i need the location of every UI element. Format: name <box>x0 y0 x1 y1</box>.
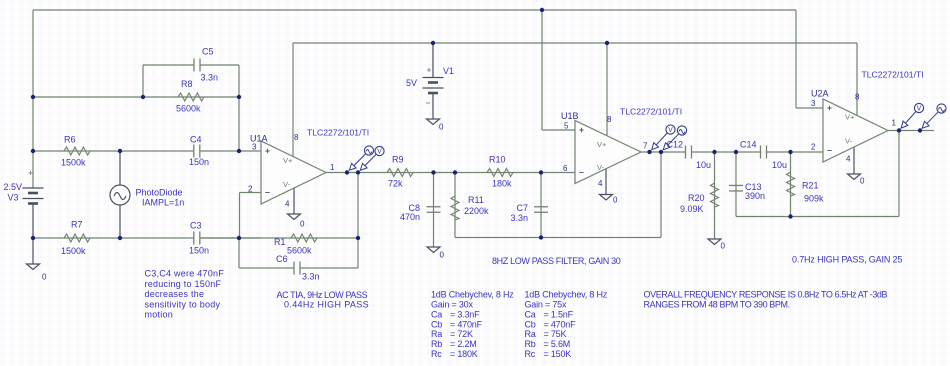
svg-text:= 5.6M: = 5.6M <box>544 339 571 349</box>
svg-text:Rc: Rc <box>525 349 536 359</box>
svg-text:3: 3 <box>811 99 816 108</box>
svg-text:Ra: Ra <box>525 329 536 339</box>
svg-text:0: 0 <box>42 273 47 282</box>
svg-text:C4: C4 <box>190 135 202 145</box>
svg-text:0: 0 <box>439 123 444 132</box>
svg-text:sensitivity to body: sensitivity to body <box>145 300 221 310</box>
svg-text:V+: V+ <box>597 140 607 149</box>
svg-text:V: V <box>668 127 673 134</box>
svg-text:= 75K: = 75K <box>544 329 567 339</box>
svg-text:3.3n: 3.3n <box>201 73 219 83</box>
svg-text:V1: V1 <box>443 66 454 76</box>
svg-text:Gain = 30x: Gain = 30x <box>431 299 473 309</box>
svg-text:9.09K: 9.09K <box>680 204 704 214</box>
svg-text:R11: R11 <box>468 195 484 205</box>
svg-text:= 470nF: = 470nF <box>450 319 483 329</box>
svg-text:C7: C7 <box>516 203 528 213</box>
svg-text:C5: C5 <box>202 47 214 57</box>
svg-text:909k: 909k <box>804 194 824 204</box>
svg-text:AC TIA, 9Hz LOW PASS: AC TIA, 9Hz LOW PASS <box>277 290 368 300</box>
svg-text:R9: R9 <box>392 155 404 165</box>
svg-text:5V: 5V <box>406 78 417 88</box>
svg-text:Ca: Ca <box>525 309 536 319</box>
svg-text:IAMPL=1n: IAMPL=1n <box>142 198 184 208</box>
svg-text:V3: V3 <box>8 193 19 203</box>
svg-text:3.3n: 3.3n <box>302 272 320 282</box>
svg-text:6: 6 <box>563 164 568 173</box>
svg-text:Gain = 75x: Gain = 75x <box>525 299 567 309</box>
svg-text:motion: motion <box>145 310 174 320</box>
svg-text:8: 8 <box>607 115 612 124</box>
svg-text:150n: 150n <box>189 157 209 167</box>
svg-text:reducing to 150nF: reducing to 150nF <box>145 279 222 289</box>
svg-text:C12: C12 <box>667 140 684 150</box>
svg-text:C3,C4 were 470nF: C3,C4 were 470nF <box>145 269 225 279</box>
svg-text:= 150K: = 150K <box>544 349 572 359</box>
svg-text:Rb: Rb <box>525 339 536 349</box>
svg-text:1: 1 <box>892 119 897 128</box>
svg-text:RANGES FROM 48 BPM TO 390 BPM.: RANGES FROM 48 BPM TO 390 BPM. <box>644 300 790 310</box>
svg-text:470n: 470n <box>400 212 420 222</box>
svg-text:5600k: 5600k <box>287 245 312 255</box>
svg-text:R20: R20 <box>688 193 705 203</box>
svg-text:5600k: 5600k <box>176 104 201 114</box>
svg-text:Ra: Ra <box>431 329 442 339</box>
svg-text:0.44Hz HIGH PASS: 0.44Hz HIGH PASS <box>284 300 369 310</box>
svg-text:2.5V: 2.5V <box>4 182 23 192</box>
svg-text:Cb: Cb <box>525 319 536 329</box>
svg-text:8: 8 <box>855 93 860 102</box>
svg-text:10u: 10u <box>696 160 711 170</box>
svg-text:V-: V- <box>845 137 853 146</box>
svg-text:3: 3 <box>252 143 257 152</box>
svg-text:180k: 180k <box>492 179 512 189</box>
svg-text:V+: V+ <box>845 113 855 122</box>
svg-text:0: 0 <box>721 242 726 251</box>
svg-text:= 72K: = 72K <box>450 329 473 339</box>
svg-text:C14: C14 <box>740 140 757 150</box>
svg-text:2: 2 <box>811 143 816 152</box>
svg-text:= 470nF: = 470nF <box>544 319 577 329</box>
svg-text:C3: C3 <box>190 221 202 231</box>
svg-text:V: V <box>377 149 382 156</box>
svg-text:PhotoDiode: PhotoDiode <box>136 188 183 198</box>
svg-text:U1B: U1B <box>561 111 579 121</box>
svg-text:0: 0 <box>860 177 865 186</box>
svg-text:Cb: Cb <box>431 319 442 329</box>
svg-text:R1: R1 <box>274 237 286 247</box>
svg-text:8HZ LOW PASS FILTER, GAIN 30: 8HZ LOW PASS FILTER, GAIN 30 <box>492 256 621 266</box>
svg-text:TLC2272/101/TI: TLC2272/101/TI <box>307 128 369 138</box>
svg-text:4: 4 <box>846 155 851 164</box>
svg-text:= 1.5nF: = 1.5nF <box>544 309 574 319</box>
svg-text:V-: V- <box>283 180 291 189</box>
svg-text:Rc: Rc <box>431 349 442 359</box>
svg-text:R21: R21 <box>802 181 819 191</box>
svg-text:R6: R6 <box>64 135 76 145</box>
svg-text:4: 4 <box>285 200 290 209</box>
svg-text:V: V <box>917 106 922 113</box>
svg-text:1500k: 1500k <box>61 246 86 256</box>
svg-text:R8: R8 <box>181 79 193 89</box>
svg-text:R10: R10 <box>489 155 506 165</box>
svg-text:decreases the: decreases the <box>145 289 205 299</box>
svg-text:2: 2 <box>248 185 253 194</box>
svg-text:8: 8 <box>294 133 299 142</box>
svg-text:= 2.2M: = 2.2M <box>450 339 477 349</box>
svg-text:U2A: U2A <box>811 89 829 99</box>
svg-text:3.3n: 3.3n <box>510 213 528 223</box>
svg-text:= 180K: = 180K <box>450 349 478 359</box>
svg-text:0: 0 <box>300 220 305 229</box>
svg-text:Rb: Rb <box>431 339 442 349</box>
svg-text:C6: C6 <box>276 254 288 264</box>
svg-text:OVERALL FREQUENCY RESPONSE IS: OVERALL FREQUENCY RESPONSE IS 0.8Hz TO 6… <box>644 290 888 300</box>
svg-text:390n: 390n <box>745 191 765 201</box>
svg-text:V-: V- <box>597 163 605 172</box>
svg-text:150n: 150n <box>189 246 209 256</box>
svg-text:R7: R7 <box>71 220 83 230</box>
svg-text:2200k: 2200k <box>464 206 489 216</box>
svg-text:1dB Chebychev, 8 Hz: 1dB Chebychev, 8 Hz <box>431 290 514 300</box>
svg-text:1500k: 1500k <box>61 158 86 168</box>
svg-text:= 3.3nF: = 3.3nF <box>450 309 480 319</box>
svg-text:0: 0 <box>440 251 445 260</box>
svg-text:1dB Chebychev, 8 Hz: 1dB Chebychev, 8 Hz <box>525 290 608 300</box>
svg-text:72k: 72k <box>388 179 403 189</box>
svg-text:10u: 10u <box>772 160 787 170</box>
svg-text:V+: V+ <box>283 156 293 165</box>
svg-text:0: 0 <box>613 196 618 205</box>
svg-text:7: 7 <box>643 142 648 151</box>
svg-text:4: 4 <box>598 179 603 188</box>
svg-text:1: 1 <box>330 163 335 172</box>
svg-text:TLC2272/101/TI: TLC2272/101/TI <box>862 70 924 80</box>
svg-text:TLC2272/101/TI: TLC2272/101/TI <box>620 107 682 117</box>
svg-text:Ca: Ca <box>431 309 442 319</box>
svg-text:0.7Hz HIGH PASS, GAIN 25: 0.7Hz HIGH PASS, GAIN 25 <box>792 255 902 265</box>
svg-text:5: 5 <box>564 122 569 131</box>
